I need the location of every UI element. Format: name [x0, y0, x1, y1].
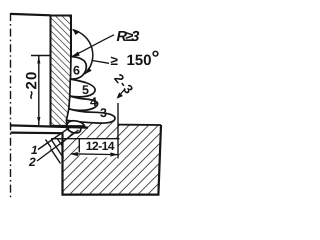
angle arc label line [91, 60, 109, 63]
leader to weld pass 2 [37, 130, 79, 161]
dimension ~20: extension line [31, 55, 51, 57]
label R>=3 [117, 31, 139, 41]
bottom plate (hatched section) [63, 120, 162, 195]
label weld pass 5 [82, 85, 88, 94]
label weld pass 3 [100, 108, 106, 117]
plate face edge at root [66, 119, 68, 127]
top edge line [11, 14, 51, 15]
dimension 12-14: text [87, 142, 115, 150]
weld bead 3 [67, 109, 115, 123]
bore edge [62, 134, 64, 195]
label weld pass 4 [90, 97, 97, 106]
dimension 12-14: extension line [117, 103, 119, 158]
angle arc for 150 deg [73, 30, 93, 74]
centerline [10, 13, 12, 198]
weld bead 2 (root pass) [67, 121, 85, 126]
label weld pass 6 [73, 66, 79, 75]
dimension ~20: arrowheads [37, 56, 40, 64]
label weld pass 2 [29, 158, 36, 166]
vertical plate (hatched section) [51, 16, 72, 126]
dimension 12-14: top line [51, 138, 120, 140]
weld bead 1 (root pass) [66, 127, 81, 133]
hatch strokes over bore area [46, 139, 64, 164]
leader R>=3 [72, 35, 115, 57]
label weld pass 1 [31, 146, 37, 154]
weld bead 4 [69, 96, 98, 110]
root penetration line [11, 132, 64, 135]
dimension ~20: text [26, 72, 37, 99]
label >=150 deg [111, 56, 118, 65]
shell surface line [11, 125, 89, 127]
dimension 12-14: left tick [78, 139, 80, 153]
dimension 12-14: dimension line [71, 153, 119, 156]
weld bead 6 [71, 57, 87, 80]
leader to weld pass 1 [38, 127, 71, 150]
white box for 12-14 label [80, 138, 119, 158]
weld bead 5 [70, 79, 95, 97]
dimension ~20: dimension line [38, 56, 40, 125]
dimension 2-3 leader + arrowhead [118, 90, 125, 98]
dimension 2-3 text [114, 73, 134, 94]
